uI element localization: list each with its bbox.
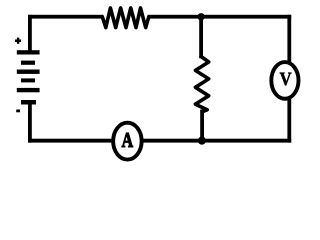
voltmeter letter V [280,73,292,86]
resistor R1 (series, top) [102,8,149,28]
wire: left rail, upper stub (top corner to battery) [28,15,32,52]
battery plate 5 (long) [17,88,40,92]
junction: bottom node dot [198,137,206,145]
battery (multi-cell) [17,50,40,104]
wire: left rail, lower stub (battery to bottom corner) [28,102,32,143]
wire: middle branch, upper stub [199,15,203,59]
junction: top node dot [197,13,204,20]
wire: top rail, left segment [28,15,104,19]
battery plate 1 (long, +) [17,50,40,54]
wire: bottom rail, middle segment (ammeter to bottom node) [142,139,204,143]
wire: right rail [287,15,291,143]
wire: top rail, right segment [148,15,292,19]
battery plate 4 (short) [21,78,35,82]
resistor R2 (shunt, vertical) [195,57,208,112]
battery plate 2 (short) [21,61,35,65]
ammeter A (ellipse body) [113,123,141,160]
voltmeter V (ellipse body) [271,62,298,99]
battery plate 3 (long) [17,70,40,74]
wire: bottom rail, right segment [204,139,292,143]
wire: middle branch, lower stub [200,110,204,143]
wire: bottom rail, left segment [28,139,114,143]
ammeter letter A [122,133,133,147]
battery + terminal label [15,38,21,44]
battery - terminal label [16,110,20,113]
battery plate 6 (short, -) [21,100,36,105]
